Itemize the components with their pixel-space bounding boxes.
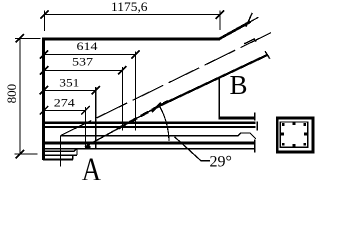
node tick left 1175,6 [40,10,48,18]
dimension 800 vertical line [19,38,21,154]
wire centerline dash-dot diagonal [61,32,272,135]
svg-text:351: 351 [59,75,79,89]
wire extension 614 [135,51,137,130]
component cross-section outer square [277,118,313,152]
node tick on bar [152,103,161,112]
wire notch top line [43,149,77,152]
wire section line A vertical [60,135,62,166]
node rebar dot top-right [304,123,307,126]
wire upper edge thin continuation [251,17,259,21]
wire L-shape vertical under B [218,78,220,119]
node tick left 351 [40,86,48,94]
node tick right 351 [92,86,100,94]
svg-text:A: A [82,151,102,180]
wire beam thin line L5 [43,148,256,150]
wire extension 274 [85,107,87,148]
node bar end arrowhead [84,144,91,149]
dimension 1175,6 line [45,14,220,16]
node rebar dot bottom-mid [293,144,296,147]
wire left vertical thick edge [42,38,45,161]
node tick right 1175,6 [216,10,224,18]
node tick right 537 [118,66,126,74]
wire beam thick line L4 [43,141,256,144]
wire notch right vertical [72,155,74,159]
svg-text:29°: 29° [210,154,232,171]
node rebar dot mid-left [281,133,284,136]
wire notch step vertical [76,149,78,155]
wire break tick at bar end [265,51,270,58]
node tick left 274 [40,106,48,114]
wire extension 351 [95,87,97,149]
wire upper diagonal edge of inclined member [219,22,250,39]
svg-text:1175,6: 1175,6 [111,0,148,14]
wire leader to angle label [175,137,211,161]
wire diagonal bar thick upper segment [158,55,267,107]
node rebar dot top-left [282,123,285,126]
wire extension 537 [121,67,123,130]
svg-text:274: 274 [54,95,75,109]
wire right end break tick middle [256,122,258,131]
svg-text:614: 614 [77,39,98,53]
wire L-shape horizontal thick [219,116,256,119]
wire extension right 1175,6 [219,11,221,31]
wire extension top 800 [15,37,41,39]
wire angle arc 29deg [160,106,169,141]
node rebar dot bottom-right [304,143,307,146]
wire beam thin line L2 [43,126,256,128]
wire diagonal bar thin lower segment [85,107,158,147]
component cross-section inner square [280,122,307,147]
dimension 614 line [44,54,136,56]
svg-text:800: 800 [4,84,19,104]
dimension 537 line [44,69,122,71]
node tick top 800 [16,34,24,42]
dimension 274 line [44,109,86,111]
wire extension left 1175,6 [44,11,46,32]
node tick left 537 [40,66,48,74]
wire notch bottom line [43,159,73,161]
node tick bottom 800 [16,150,24,158]
node tick left 614 [40,50,48,58]
node tick right 274 [81,106,89,114]
dimension 351 line [44,89,96,91]
svg-text:B: B [230,69,248,100]
wire extension bottom 800 [15,153,38,155]
wire break check kink on centerline [244,39,256,44]
svg-text:537: 537 [72,55,93,69]
wire beam top thick line L1 [43,121,256,124]
node rebar dot bottom-left [282,143,285,146]
wire right end break tick lower [254,140,256,153]
node rebar dot mid-right [304,133,307,136]
node rebar dot top-mid [293,122,296,125]
wire notch middle line [44,154,77,156]
wire beam middle thin line L3 with Z-break [61,133,256,139]
wire right end break tick upper [254,112,256,120]
wire hidden bar bold dashed [118,101,168,129]
node tick right 614 [131,50,139,58]
wire top chord thick line [42,37,220,40]
wire break tick at upper edge end [246,13,253,27]
